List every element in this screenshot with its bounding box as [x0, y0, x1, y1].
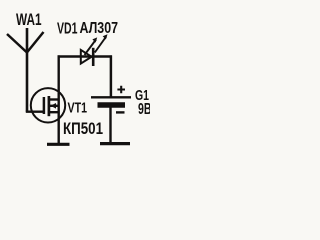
svg-text:VD1: VD1 [57, 20, 78, 37]
svg-text:АЛ307: АЛ307 [80, 20, 119, 37]
LED VD1 triangle [81, 50, 92, 64]
wire battery positive lead [110, 55, 113, 96]
svg-text:9В: 9В [138, 101, 150, 118]
drain stub [50, 98, 60, 100]
ground left [47, 143, 70, 146]
wire drain-source vertical lead [58, 55, 60, 143]
wire battery negative lead [109, 107, 111, 143]
svg-text:WA1: WA1 [16, 10, 42, 29]
battery G1 negative plate [98, 102, 126, 107]
transistor VT1 circle [31, 88, 65, 122]
svg-text:КП501: КП501 [63, 120, 103, 138]
battery G1 positive plate [91, 96, 131, 98]
wire gate lead [26, 110, 44, 112]
source stub [50, 111, 60, 113]
battery plus sign [117, 86, 125, 94]
substrate arrowhead [51, 103, 57, 109]
svg-text:VT1: VT1 [68, 100, 88, 117]
ground right [100, 142, 130, 145]
battery minus sign [116, 111, 125, 113]
LED cathode bar [92, 48, 95, 66]
LED arrow 1 [85, 40, 97, 56]
channel bar [48, 96, 51, 116]
substrate arrow stub [50, 105, 60, 107]
antenna WA1 [26, 28, 29, 112]
wire top [58, 55, 112, 58]
gate bar [43, 97, 46, 114]
LED arrow 2 [95, 37, 106, 53]
